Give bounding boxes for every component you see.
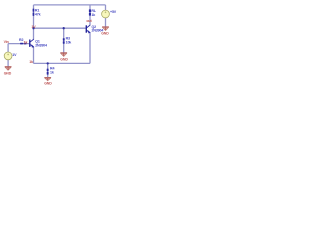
wire Vin bottom stub (7, 60, 9, 67)
svg-text:1k: 1k (91, 13, 95, 17)
svg-text:GND: GND (44, 82, 52, 86)
wire Q1 emitter down (33, 47, 35, 64)
svg-text:+5V: +5V (110, 10, 117, 14)
junction node R3 tap (63, 27, 65, 29)
svg-text:GND: GND (60, 58, 68, 62)
wire Vin top vertical (7, 44, 9, 53)
svg-text:1k: 1k (50, 70, 54, 74)
transistor Q2 (86, 25, 91, 34)
wire Q2 emitter down (89, 33, 91, 63)
wire Vin to base (8, 43, 29, 45)
svg-text:1V: 1V (12, 53, 17, 57)
svg-text:1k: 1k (24, 40, 28, 44)
wire mid horizontal base net (34, 27, 86, 29)
svg-text:Vin: Vin (4, 40, 9, 44)
transistor Q1 (29, 39, 34, 48)
svg-text:GND: GND (4, 71, 12, 75)
wire top rail (34, 4, 106, 6)
svg-text:1k: 1k (29, 60, 33, 64)
resistor R2 body (20, 43, 26, 45)
voltage source V1 (102, 10, 110, 18)
wire R3 branch down (63, 28, 65, 52)
junction node base of Q1 collector net (32, 27, 34, 29)
wire Q2 collector up (89, 5, 91, 25)
resistor R3 body (63, 38, 65, 44)
resistor R4 body (47, 69, 49, 75)
ground at R3 (60, 52, 67, 56)
wire left vertical R1 branch (33, 5, 35, 40)
ground at V1 (102, 26, 109, 30)
svg-text:47k: 47k (35, 13, 41, 17)
wire R4 branch down (47, 63, 49, 77)
wire V1 bottom stub (105, 18, 107, 27)
wire bottom emitter net (34, 62, 91, 64)
wire V1 top stub (105, 5, 107, 10)
resistor RL body (89, 9, 91, 15)
ground at Vin (5, 66, 12, 70)
svg-text:10k: 10k (66, 41, 72, 45)
svg-text:2N3904: 2N3904 (35, 44, 47, 48)
voltage source Vin (4, 52, 12, 60)
junction node R4 tap (47, 62, 49, 64)
svg-text:GND: GND (101, 31, 109, 35)
resistor R1 body (33, 9, 35, 16)
ground at R4 (44, 77, 51, 81)
